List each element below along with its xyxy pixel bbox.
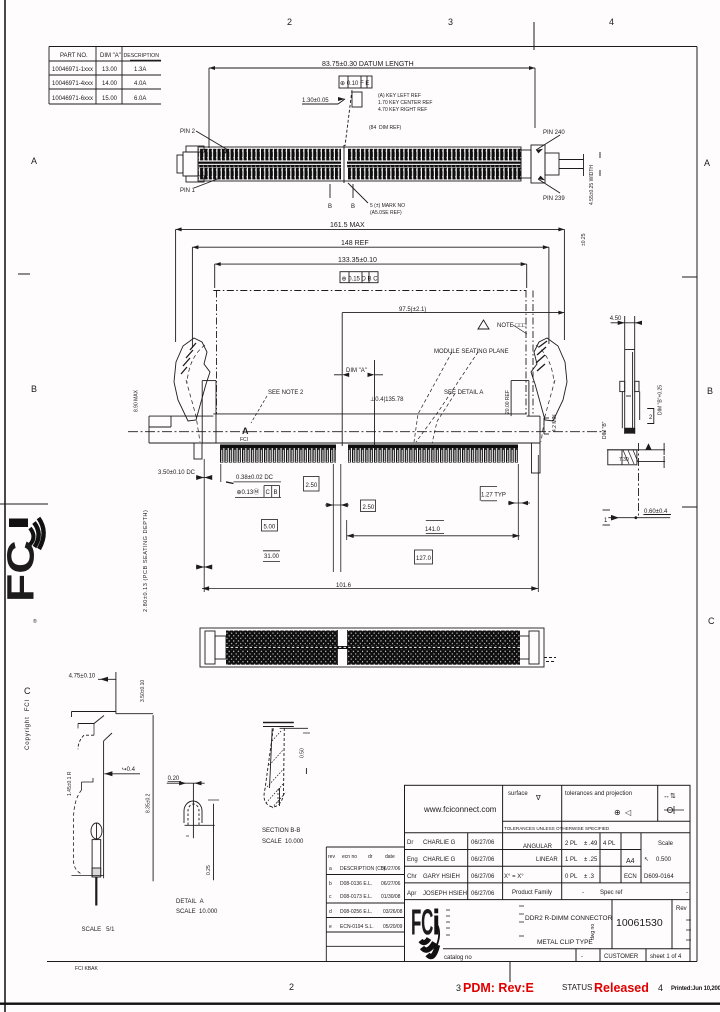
svg-text:NOTE □□□: NOTE □□□ <box>497 323 527 329</box>
svg-text:DIM "B"+0.25: DIM "B"+0.25 <box>658 385 664 415</box>
svg-text:01/30/08: 01/30/08 <box>381 894 401 900</box>
svg-text:4.55±0.25 WIDTH: 4.55±0.25 WIDTH <box>589 165 595 205</box>
svg-text:2.80±0.13 (PCB SEATING DEPTH): 2.80±0.13 (PCB SEATING DEPTH) <box>143 510 149 612</box>
svg-text:101.6: 101.6 <box>336 583 352 589</box>
svg-text:133.35±0.10: 133.35±0.10 <box>338 257 377 264</box>
svg-text:8.90 MAX: 8.90 MAX <box>134 389 140 412</box>
svg-text:STATUS: STATUS <box>562 983 592 992</box>
svg-text:DESCRIPTION: DESCRIPTION <box>124 53 160 59</box>
svg-text:10046971-1xxx: 10046971-1xxx <box>52 67 93 73</box>
svg-text:FC: FC <box>411 903 433 943</box>
svg-text:13.00: 13.00 <box>102 67 118 73</box>
svg-text:DIM "A": DIM "A" <box>346 368 367 374</box>
svg-text:A: A <box>704 158 710 168</box>
svg-text:2: 2 <box>287 17 292 27</box>
svg-text:PDM: Rev:E: PDM: Rev:E <box>463 981 534 995</box>
svg-text:06/27/06: 06/27/06 <box>381 881 401 887</box>
svg-text:PIN 1: PIN 1 <box>180 188 196 194</box>
svg-text:20.00 REF: 20.00 REF <box>505 390 511 414</box>
svg-text:-: - <box>581 954 583 960</box>
svg-text:Released: Released <box>594 981 649 995</box>
svg-text:4: 4 <box>609 17 614 27</box>
svg-text:↪0.4: ↪0.4 <box>122 767 136 773</box>
svg-text:161.5 MAX: 161.5 MAX <box>330 222 365 229</box>
svg-text:B: B <box>707 386 713 396</box>
svg-text:Spec ref: Spec ref <box>600 890 623 896</box>
svg-text:↖: ↖ <box>644 857 649 863</box>
svg-text:Chr: Chr <box>407 874 417 880</box>
svg-text:JOSEPH HSIEH: JOSEPH HSIEH <box>423 891 467 897</box>
svg-text:± .25: ± .25 <box>584 857 598 863</box>
svg-text:date: date <box>385 854 395 860</box>
svg-text:03/26/08: 03/26/08 <box>383 909 403 915</box>
svg-text:3.50±0.10 DC: 3.50±0.10 DC <box>158 470 196 476</box>
svg-text:0.60±0.4: 0.60±0.4 <box>644 509 668 515</box>
svg-text:SCALE 10.000: SCALE 10.000 <box>176 909 218 915</box>
svg-text:10046971-4xxx: 10046971-4xxx <box>52 81 93 87</box>
svg-text:06/27/06: 06/27/06 <box>471 857 495 863</box>
svg-text:PIN 2: PIN 2 <box>180 129 196 135</box>
svg-text:0.20: 0.20 <box>168 776 180 782</box>
svg-text:ANGULAR: ANGULAR <box>523 844 553 850</box>
svg-text:sheet 1 of 4: sheet 1 of 4 <box>650 954 682 960</box>
svg-text:DIM "B": DIM "B" <box>602 421 608 439</box>
svg-text:7.30: 7.30 <box>619 457 629 463</box>
svg-text:1.45±0.1 R: 1.45±0.1 R <box>67 771 73 796</box>
svg-text:4.70 KEY RIGHT REF: 4.70 KEY RIGHT REF <box>378 107 427 113</box>
svg-text:PIN 239: PIN 239 <box>543 196 565 202</box>
svg-text:10061530: 10061530 <box>616 917 663 929</box>
svg-text:0.25: 0.25 <box>206 865 212 875</box>
svg-text:PART NO.: PART NO. <box>60 53 88 59</box>
svg-text:◁: ◁ <box>625 808 632 817</box>
svg-text:D08-0256 E.L.: D08-0256 E.L. <box>340 909 372 915</box>
svg-text:LINEAR: LINEAR <box>536 857 558 863</box>
svg-text:SCALE 10.000: SCALE 10.000 <box>262 839 304 845</box>
svg-text:dr: dr <box>368 854 373 860</box>
svg-text:C: C <box>708 616 715 626</box>
svg-text:06/27/06: 06/27/06 <box>381 866 401 872</box>
svg-text:rev: rev <box>328 854 335 860</box>
svg-text:1.3A: 1.3A <box>134 67 146 73</box>
svg-text:Apr: Apr <box>407 891 416 897</box>
svg-text:1 PL: 1 PL <box>565 857 578 863</box>
svg-text:FC: FC <box>0 540 42 602</box>
svg-text:X° = X°: X° = X° <box>504 874 524 880</box>
svg-text:4 PL: 4 PL <box>603 841 616 847</box>
svg-text:SCALE 5/1: SCALE 5/1 <box>82 927 116 933</box>
svg-text:⊕ 0.15 D B C: ⊕ 0.15 D B C <box>342 277 379 283</box>
svg-text:∇: ∇ <box>535 794 541 802</box>
svg-text:⊥0.4|135.78: ⊥0.4|135.78 <box>370 396 404 403</box>
svg-text:(84 DIM REF): (84 DIM REF) <box>369 125 402 131</box>
svg-text:127.0: 127.0 <box>416 556 432 562</box>
svg-text:06/27/06: 06/27/06 <box>471 840 495 846</box>
svg-text:Rev: Rev <box>676 906 687 912</box>
svg-text:ECN: ECN <box>624 874 637 880</box>
svg-text:C: C <box>24 686 31 696</box>
svg-text:31.00: 31.00 <box>264 554 280 560</box>
svg-text:0.500: 0.500 <box>656 857 672 863</box>
svg-text:A: A <box>242 426 249 436</box>
svg-text:4: 4 <box>658 983 663 993</box>
svg-text:dwg no: dwg no <box>590 924 596 940</box>
svg-text:PIN 240: PIN 240 <box>543 130 565 136</box>
svg-text:3: 3 <box>456 983 461 993</box>
svg-text:-: - <box>686 890 688 896</box>
svg-text:Printed:Jun 10,2009: Printed:Jun 10,2009 <box>671 986 720 992</box>
svg-text:e: e <box>329 924 332 930</box>
svg-text:4.0A: 4.0A <box>134 81 146 87</box>
svg-text:1.27 TYP: 1.27 TYP <box>481 493 506 499</box>
svg-text:2.50: 2.50 <box>306 483 318 489</box>
svg-text:⊕0.13Ⓜ: ⊕0.13Ⓜ <box>237 488 260 496</box>
svg-text:FCI KBAK: FCI KBAK <box>75 966 98 972</box>
svg-text:Dr: Dr <box>407 840 413 846</box>
svg-text:FCI: FCI <box>240 437 248 443</box>
svg-text:DESCRIPTION (C5): DESCRIPTION (C5) <box>340 866 386 872</box>
svg-text:METAL CLIP TYPE: METAL CLIP TYPE <box>537 939 593 946</box>
svg-text:148 REF: 148 REF <box>341 240 369 247</box>
svg-text:5.00: 5.00 <box>264 525 276 531</box>
svg-text:SEE DETAIL A: SEE DETAIL A <box>444 390 483 396</box>
svg-text:-: - <box>582 890 584 896</box>
svg-text:d: d <box>329 909 332 915</box>
svg-text:B: B <box>274 490 278 496</box>
svg-text:6.0A: 6.0A <box>134 96 146 102</box>
svg-text:tolerances and projection: tolerances and projection <box>565 791 632 797</box>
svg-text:ECN-0194 S.L.: ECN-0194 S.L. <box>340 924 374 930</box>
svg-text:06/27/06: 06/27/06 <box>471 891 495 897</box>
svg-text:4.50: 4.50 <box>610 316 622 322</box>
svg-text:a: a <box>329 866 332 872</box>
svg-text:C: C <box>266 490 271 496</box>
svg-text:15.00: 15.00 <box>102 96 118 102</box>
svg-text:±0.25: ±0.25 <box>581 233 587 246</box>
svg-text:B: B <box>328 204 332 210</box>
svg-text:ecn no: ecn no <box>342 854 357 860</box>
svg-text:06/27/06: 06/27/06 <box>471 874 495 880</box>
svg-text:(A5.0SE REF): (A5.0SE REF) <box>370 210 402 216</box>
svg-text:D609-0164: D609-0164 <box>644 874 674 880</box>
svg-text:↔⇅: ↔⇅ <box>663 793 676 800</box>
svg-text:Eng: Eng <box>407 857 418 863</box>
svg-text:0.50: 0.50 <box>300 748 306 758</box>
svg-text:2.50: 2.50 <box>363 505 375 511</box>
svg-text:0 PL: 0 PL <box>565 874 578 880</box>
svg-text:B: B <box>351 204 355 210</box>
svg-text:D08-0136 E.L.: D08-0136 E.L. <box>340 881 372 887</box>
svg-text:4.75±0.10: 4.75±0.10 <box>69 674 96 680</box>
svg-text:SECTION B-B: SECTION B-B <box>262 828 300 834</box>
svg-text:⊕: ⊕ <box>614 808 621 817</box>
svg-text:14.00: 14.00 <box>102 81 118 87</box>
svg-text:0.38±0.02 DC: 0.38±0.02 DC <box>236 475 274 481</box>
svg-text:83.75±0.30 DATUM LENGTH: 83.75±0.30 DATUM LENGTH <box>322 61 414 68</box>
svg-text:catalog no: catalog no <box>444 955 472 961</box>
svg-text:SEE NOTE 2: SEE NOTE 2 <box>268 390 304 396</box>
svg-text:± .3: ± .3 <box>584 874 595 880</box>
svg-text:surface: surface <box>508 791 528 797</box>
svg-text:®: ® <box>33 618 37 625</box>
svg-text:4.2 MIN: 4.2 MIN <box>552 414 558 432</box>
svg-text:DIM "A": DIM "A" <box>100 53 121 59</box>
svg-text:CHARLIE G: CHARLIE G <box>423 840 456 846</box>
svg-text:2 PL: 2 PL <box>565 841 578 847</box>
svg-text:1.70 KEY CENTER REF: 1.70 KEY CENTER REF <box>378 100 432 106</box>
svg-text:B: B <box>31 384 37 394</box>
svg-text:⊕ 0.10 F E: ⊕ 0.10 F E <box>340 81 369 87</box>
svg-text:GARY HSIEH: GARY HSIEH <box>423 874 460 880</box>
svg-text:3: 3 <box>448 17 453 27</box>
svg-text:(A) KEY LEFT REF: (A) KEY LEFT REF <box>378 93 421 99</box>
svg-text:2: 2 <box>289 982 294 992</box>
svg-text:10046971-6xxx: 10046971-6xxx <box>52 96 93 102</box>
svg-text:A: A <box>31 156 37 166</box>
svg-text:www.fciconnect.com: www.fciconnect.com <box>423 805 497 814</box>
svg-text:1.30±0.05: 1.30±0.05 <box>302 98 329 104</box>
svg-text:± .49: ± .49 <box>584 841 598 847</box>
svg-text:CUSTOMER: CUSTOMER <box>604 954 639 960</box>
svg-text:Product Family: Product Family <box>512 890 552 896</box>
svg-text:8.35±0.2: 8.35±0.2 <box>146 793 152 813</box>
svg-text:3.50±0.10: 3.50±0.10 <box>140 680 146 702</box>
svg-text:DDR2 R-DIMM CONNECTOR: DDR2 R-DIMM CONNECTOR <box>525 915 613 922</box>
svg-text:141.0: 141.0 <box>425 527 441 533</box>
svg-text:97.5(±2.1): 97.5(±2.1) <box>399 307 426 313</box>
svg-text:A4: A4 <box>626 858 635 865</box>
svg-text:CHARLIE G: CHARLIE G <box>423 857 456 863</box>
svg-text:b: b <box>329 881 332 887</box>
svg-text:TOLERANCES UNLESS OTHERWISE SP: TOLERANCES UNLESS OTHERWISE SPECIFIED <box>504 826 610 831</box>
svg-text:Copyright FCI: Copyright FCI <box>24 699 31 750</box>
svg-text:DETAIL A: DETAIL A <box>176 899 204 905</box>
svg-text:D08-0173 E.L.: D08-0173 E.L. <box>340 894 372 900</box>
svg-text:05/20/09: 05/20/09 <box>383 924 403 930</box>
svg-text:5 (±) MARK NO: 5 (±) MARK NO <box>370 203 405 209</box>
svg-text:Scale: Scale <box>658 841 674 847</box>
svg-text:MODULE SEATING PLANE: MODULE SEATING PLANE <box>434 349 509 355</box>
